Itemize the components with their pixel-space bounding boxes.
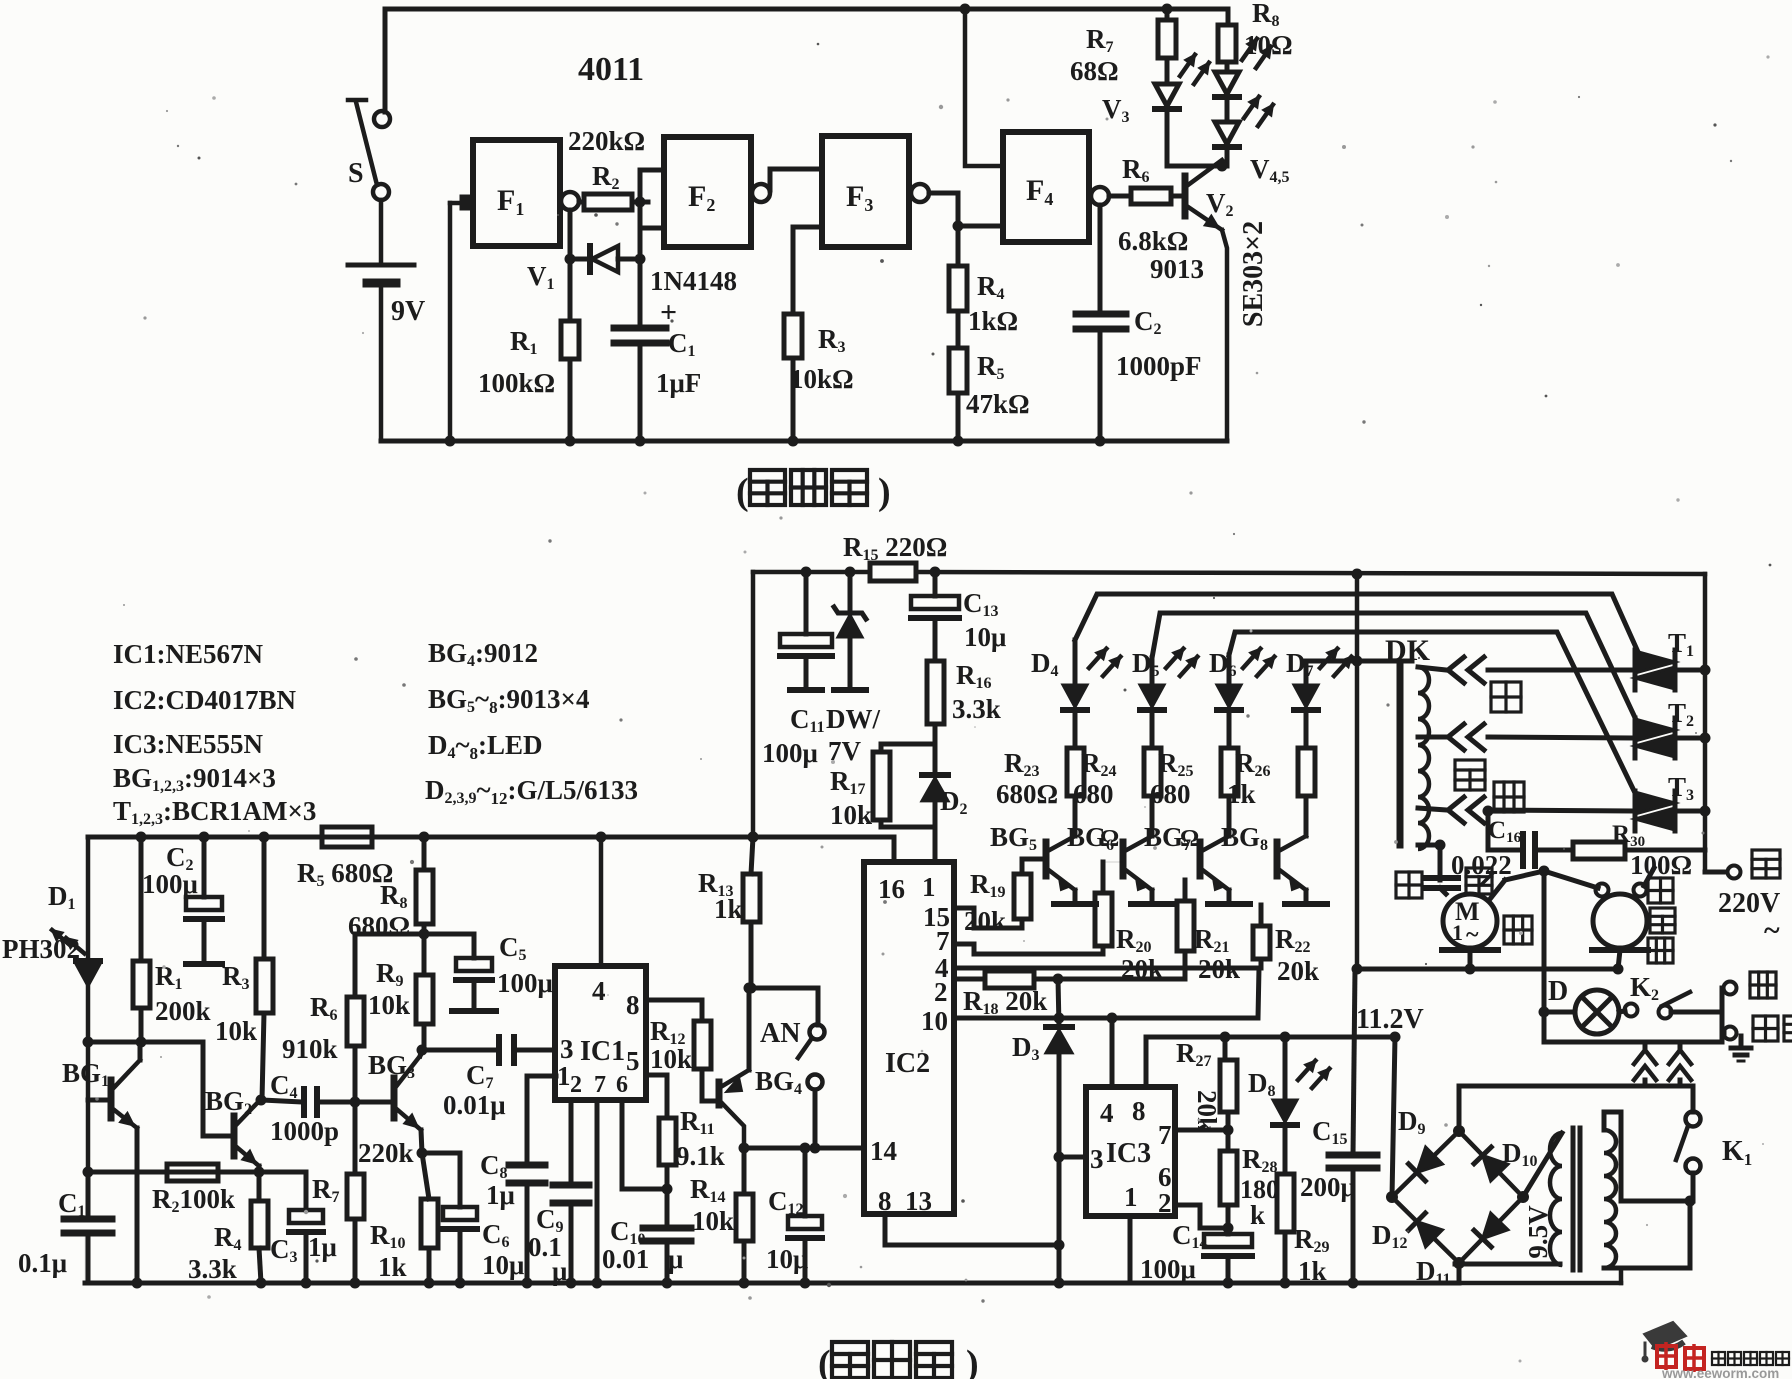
svg-text:BG5~8:9013×4: BG5~8:9013×4 xyxy=(428,684,589,717)
resistor R17 10k parallel xyxy=(881,742,935,747)
gate line L4 from D6 to T3 xyxy=(1229,632,1637,797)
resistor R19 20k xyxy=(1014,874,1031,919)
wire: lamp bottom wire xyxy=(1544,1040,1722,1045)
svg-text:100μ: 100μ xyxy=(762,738,818,768)
svg-text:2: 2 xyxy=(570,1072,582,1098)
wire: pin4 long line to R22 xyxy=(954,966,1259,971)
svg-text:13: 13 xyxy=(905,1186,932,1216)
svg-text:680Ω: 680Ω xyxy=(348,911,410,941)
watermark logo cap xyxy=(1644,1322,1686,1349)
DK transformer core bar xyxy=(1397,663,1404,845)
label weak xyxy=(1491,682,1521,712)
svg-text:1: 1 xyxy=(1452,920,1463,945)
transistor BG6 xyxy=(1120,842,1127,876)
wire: bridge top to connector wire xyxy=(1457,1086,1462,1131)
svg-text:IC3: IC3 xyxy=(1106,1138,1151,1169)
resistor R13 1k xyxy=(748,832,759,843)
svg-text:200μ: 200μ xyxy=(1300,1172,1356,1202)
gate F1 xyxy=(473,140,560,246)
svg-text:BG1,2,3:9014×3: BG1,2,3:9014×3 xyxy=(113,763,276,795)
svg-text:220k: 220k xyxy=(358,1138,414,1168)
svg-text:R15 220Ω: R15 220Ω xyxy=(843,532,947,564)
wire: motor/timer bottom wire xyxy=(1357,967,1618,972)
wire: supply rail y572 with R15 xyxy=(753,570,870,575)
svg-text:): ) xyxy=(878,471,891,513)
terminal blue 220V xyxy=(1705,870,1727,875)
thyristor T3 xyxy=(1633,791,1638,831)
wire: red node vertical xyxy=(1542,871,1547,1042)
wire: coil bottom to motor branch xyxy=(1418,843,1440,848)
svg-text:IC2: IC2 xyxy=(885,1048,930,1079)
svg-text:1kΩ: 1kΩ xyxy=(968,306,1018,336)
svg-text:1k: 1k xyxy=(1227,779,1256,809)
wire: right rail from supply to terminals xyxy=(1703,574,1708,872)
resistor R12 10k xyxy=(646,998,702,1003)
svg-text:R18 20k: R18 20k xyxy=(963,986,1047,1018)
resistor R27 20k xyxy=(1220,1032,1231,1043)
photodiode D1 PH302 xyxy=(86,837,91,961)
LED V3 xyxy=(1155,84,1179,106)
resistor R22 20k xyxy=(1253,926,1270,959)
svg-text:): ) xyxy=(966,1343,979,1379)
wire: IC1 pin1 to bottom rail xyxy=(527,1074,556,1079)
resistor R15 220 inline xyxy=(870,563,916,581)
svg-text:100μ: 100μ xyxy=(1140,1254,1196,1284)
capacitor C5 100u xyxy=(424,932,474,937)
wire: R2 to F2 input xyxy=(640,170,664,202)
wire: battery to bottom rail xyxy=(379,287,384,441)
svg-text:R2100k: R2100k xyxy=(152,1184,235,1216)
capacitor C16 0.022 xyxy=(1486,811,1491,850)
resistor R15b 9.1k xyxy=(646,1073,667,1078)
label black xyxy=(1504,916,1532,944)
svg-text:100μ: 100μ xyxy=(142,869,198,899)
wire: F3 lower input via R3 xyxy=(793,225,822,230)
node: F3 output bubble xyxy=(911,184,929,202)
capacitor C6 10u xyxy=(422,1151,460,1156)
wire: F3 out to F4 lower input xyxy=(929,193,1003,226)
svg-text:680: 680 xyxy=(1073,779,1114,809)
watermark site name characters xyxy=(1712,1352,1725,1365)
svg-text:Ω: Ω xyxy=(1100,826,1119,852)
resistor R24 xyxy=(1144,748,1161,796)
svg-text:100Ω: 100Ω xyxy=(1630,850,1692,880)
IC2 CD4017BN box xyxy=(864,862,954,1214)
svg-text:3.3k: 3.3k xyxy=(952,694,1001,724)
wire: IC1 pin4 to top rail xyxy=(596,832,607,843)
svg-text:+: + xyxy=(660,296,677,329)
svg-text:20k: 20k xyxy=(1198,954,1240,984)
svg-text:0.01μ: 0.01μ xyxy=(443,1090,506,1120)
svg-text:k: k xyxy=(1250,1200,1265,1230)
wire: LED branch bottom to collector node xyxy=(1165,120,1170,166)
wire: primary top loop xyxy=(1604,1112,1690,1201)
lamp D xyxy=(1539,1007,1550,1018)
svg-text:IC1: IC1 xyxy=(580,1036,625,1067)
resistor R2 100k inline xyxy=(167,1164,218,1181)
svg-text:(: ( xyxy=(736,471,749,513)
svg-text:DK: DK xyxy=(1385,634,1431,667)
chevron connector arrows xyxy=(1634,1050,1656,1064)
svg-text:10k: 10k xyxy=(830,800,872,830)
terminal yellow-green with ground xyxy=(1720,1012,1725,1042)
tap strong to T3 xyxy=(1418,808,1446,810)
svg-text:1μF: 1μF xyxy=(656,368,701,398)
battery 9V xyxy=(348,263,414,268)
svg-text:IC3:NE555N: IC3:NE555N xyxy=(113,729,264,759)
diode D3 xyxy=(1058,979,1059,1027)
svg-text:1000pF: 1000pF xyxy=(1116,351,1202,381)
transistor BG4 9012 pnp xyxy=(716,1082,723,1105)
node: F1 output bubble xyxy=(561,192,579,210)
resistor R26 xyxy=(1298,748,1315,796)
svg-text:5: 5 xyxy=(626,1046,640,1076)
LED V4 xyxy=(1215,72,1239,94)
LED D5 xyxy=(1140,685,1164,707)
capacitor C1 0.1u xyxy=(87,1172,89,1215)
svg-text:0.1μ: 0.1μ xyxy=(18,1248,67,1278)
svg-text:4011: 4011 xyxy=(578,51,644,88)
wire: R1 bottom node to BG2 base column xyxy=(88,1040,203,1045)
resistor R1 100k xyxy=(568,210,573,321)
wire: transmitter top rail xyxy=(385,7,1228,12)
svg-text:R5 680Ω: R5 680Ω xyxy=(297,858,393,890)
resistor R14 10k xyxy=(742,1148,747,1194)
DK coil xyxy=(1418,667,1429,849)
svg-text:μ: μ xyxy=(668,1244,683,1274)
wire: left battery branch down from top rail xyxy=(383,9,388,112)
wire: receiver bottom rail xyxy=(85,1281,1459,1286)
LED D6 xyxy=(1217,685,1241,707)
svg-text:10k: 10k xyxy=(368,990,410,1020)
tap arrows weak xyxy=(1448,657,1464,683)
svg-text:14: 14 xyxy=(870,1136,897,1166)
svg-text:10: 10 xyxy=(921,1006,948,1036)
wire: D3 to IC3 pin3 xyxy=(1059,1155,1086,1160)
wire: pin10 line xyxy=(954,1016,1256,1021)
motor M xyxy=(1443,894,1497,948)
resistor R3 10k xyxy=(259,832,270,843)
svg-text:47kΩ: 47kΩ xyxy=(966,389,1030,419)
timer circle xyxy=(1544,871,1598,888)
capacitor C2 100u xyxy=(199,832,210,843)
wire: IC3 pin1 to rail xyxy=(1128,1216,1133,1283)
svg-text:1k: 1k xyxy=(714,894,743,924)
resistor R9 10k xyxy=(422,934,427,975)
gate line L2 from D4 to T1 xyxy=(1075,594,1638,652)
wire: IC2 bottom pins to rail xyxy=(885,1214,1059,1245)
transistor BG5 xyxy=(1043,842,1050,876)
wire: IC3 pin2 jog xyxy=(1175,1205,1200,1228)
resistor R18 20k inline pin2 xyxy=(985,971,1034,988)
wire: 11.2V rail xyxy=(1146,1035,1395,1040)
svg-text:20k: 20k xyxy=(1192,1090,1222,1132)
IC3 NE555N box xyxy=(1086,1087,1175,1216)
label strong xyxy=(1494,782,1524,812)
resistor R28 180k xyxy=(1226,1130,1231,1151)
transistor BG1 xyxy=(108,1080,115,1118)
svg-text:10μ: 10μ xyxy=(766,1244,808,1274)
thyristor T2 xyxy=(1633,718,1638,758)
bridge rectifier D9-D12 xyxy=(1392,1131,1459,1197)
svg-text:10μ: 10μ xyxy=(482,1250,524,1280)
svg-text:1μ: 1μ xyxy=(486,1180,515,1210)
svg-text:10k: 10k xyxy=(692,1206,734,1236)
wire: bottom rail right portion xyxy=(1459,1281,1621,1286)
svg-text:1000p: 1000p xyxy=(270,1116,339,1146)
svg-text:10kΩ: 10kΩ xyxy=(790,364,854,394)
capacitor C14 100u xyxy=(1226,1228,1231,1234)
svg-text:3: 3 xyxy=(1090,1144,1104,1174)
wire: transformer secondary to bridge xyxy=(1523,1133,1562,1197)
wire: pin10 to IC3 pin4 xyxy=(1110,1018,1115,1087)
resistor R2 220k xyxy=(584,194,632,210)
resistor R21 20k xyxy=(1177,901,1194,951)
transistor BG8 xyxy=(1274,842,1281,876)
switch K1 xyxy=(1691,1086,1696,1112)
wire: node14 to IC2 xyxy=(744,1146,864,1151)
resistor R23 xyxy=(1067,748,1084,796)
svg-text:1: 1 xyxy=(922,872,936,902)
wire: pin6 to C10 node xyxy=(622,1100,667,1189)
wire: receiver top rail xyxy=(88,835,894,840)
LED D7 xyxy=(1294,685,1318,707)
wire: collector node to C7 xyxy=(422,1048,497,1053)
diode D10 xyxy=(1483,1155,1508,1181)
svg-text:910k: 910k xyxy=(282,1034,338,1064)
svg-text:10k: 10k xyxy=(650,1044,692,1074)
capacitor C12 10u xyxy=(803,1148,808,1216)
svg-text:3.3k: 3.3k xyxy=(188,1254,237,1284)
svg-text:IC1:NE567N: IC1:NE567N xyxy=(113,639,264,669)
svg-text:IC2:CD4017BN: IC2:CD4017BN xyxy=(113,685,297,715)
wire: rail corner into IC2 top xyxy=(892,837,897,862)
transistor BG7 xyxy=(1197,842,1204,876)
diode D11 xyxy=(1483,1213,1508,1239)
wire: transmitter bottom rail xyxy=(381,439,1227,444)
gate F2 xyxy=(664,137,751,247)
transformer primary xyxy=(1604,1130,1616,1268)
svg-text:~: ~ xyxy=(1466,922,1479,948)
svg-text:DW/: DW/ xyxy=(826,704,880,734)
capacitor C11 100u xyxy=(801,567,812,578)
resistor R8 10 ohm xyxy=(1226,9,1231,25)
wire: pin7 to R20 xyxy=(954,944,1103,954)
capacitor C13 10u xyxy=(930,567,941,578)
column C8 1u / pin1 xyxy=(525,1076,530,1165)
svg-text:1N4148: 1N4148 xyxy=(650,266,737,296)
svg-text:D4~8:LED: D4~8:LED xyxy=(428,730,543,763)
wire: feedback from top rail to F4 upper input xyxy=(960,4,971,15)
label red xyxy=(1466,868,1492,894)
svg-text:S: S xyxy=(348,158,364,189)
capacitor C4 1000p inline xyxy=(262,1100,302,1102)
svg-text:BG4:9012: BG4:9012 xyxy=(428,638,538,670)
node: F4 output bubble xyxy=(1091,187,1109,205)
wire: C1/R2 node line xyxy=(88,1170,259,1175)
resistor R29 1k xyxy=(1283,1125,1288,1174)
svg-text:20k: 20k xyxy=(964,906,1006,936)
svg-text:11.2V: 11.2V xyxy=(1356,1004,1424,1035)
capacitor C7 0.01u xyxy=(496,1037,502,1063)
capacitor C2 1000pF xyxy=(1098,205,1103,314)
watermark chongchong red characters xyxy=(1657,1346,1676,1367)
resistor R16 3.3k xyxy=(927,661,944,724)
wire: pin2 stub to R18 xyxy=(954,977,985,982)
wire: R6 top to R8/R9 node xyxy=(355,932,424,937)
diode D12 xyxy=(1417,1222,1443,1247)
svg-text:6: 6 xyxy=(616,1072,628,1098)
supply branch column x753 xyxy=(748,832,759,843)
svg-text:~: ~ xyxy=(1764,914,1780,947)
gate line L3 from D5 to T2 xyxy=(1152,613,1638,724)
label white xyxy=(1396,872,1422,898)
transistor V2 9013 xyxy=(1182,176,1189,216)
svg-text:7: 7 xyxy=(594,1072,606,1098)
svg-text:200k: 200k xyxy=(155,996,211,1026)
svg-text:1: 1 xyxy=(1124,1182,1138,1212)
resistor R10 1k xyxy=(422,1153,429,1199)
LED D4 xyxy=(1063,685,1087,707)
wire: supply column to DK and D7 xyxy=(1352,569,1363,580)
resistor R1 200k xyxy=(136,832,147,843)
wire: coil top tap to T1 xyxy=(1418,667,1446,670)
svg-text:AN: AN xyxy=(760,1018,800,1049)
node: F2 output bubble xyxy=(752,184,770,202)
resistor R3 10k xyxy=(784,314,802,358)
svg-text:1: 1 xyxy=(557,1061,571,1091)
svg-text:20k: 20k xyxy=(1277,956,1319,986)
capacitor C3 1u xyxy=(259,1170,306,1175)
wire: bridge DC- to 11.2V column xyxy=(1390,1032,1401,1043)
terminal red xyxy=(1720,988,1725,1012)
wire: switch to battery xyxy=(379,200,384,263)
wire: F2 out to F3 input xyxy=(770,169,822,190)
gate F4 xyxy=(1003,132,1089,242)
resistor R30 100 xyxy=(1573,842,1625,859)
transformer secondary 9.5V xyxy=(1550,1133,1562,1265)
svg-text:8: 8 xyxy=(626,990,640,1020)
label middle xyxy=(1455,760,1485,790)
svg-text:100μ: 100μ xyxy=(497,968,553,998)
switch AN xyxy=(751,988,818,1025)
svg-text:1μ: 1μ xyxy=(308,1232,337,1262)
gate F3 xyxy=(822,136,909,247)
switch S xyxy=(374,111,390,127)
svg-text:3: 3 xyxy=(560,1034,574,1064)
wire: F2 lower input stub xyxy=(640,226,664,231)
wire: V2 emitter down to bottom rail xyxy=(1222,230,1227,441)
svg-text:7: 7 xyxy=(1158,1120,1172,1150)
resistor R4 3.3k xyxy=(257,1172,262,1201)
svg-text:10k: 10k xyxy=(215,1016,257,1046)
diode D2 xyxy=(922,772,948,778)
wire: pin15 to R19 xyxy=(954,908,1022,928)
svg-text:68Ω: 68Ω xyxy=(1070,56,1119,86)
thyristor T1 xyxy=(1633,650,1638,690)
svg-text:220kΩ: 220kΩ xyxy=(568,126,645,156)
resistor R7 220k xyxy=(353,1102,358,1174)
transistor BG2 xyxy=(231,1116,238,1156)
diode D9 xyxy=(1417,1147,1443,1172)
motor bottom xyxy=(1442,947,1498,953)
svg-text:2: 2 xyxy=(1158,1188,1172,1218)
svg-text:SE303×2: SE303×2 xyxy=(1238,221,1269,327)
svg-text:10μ: 10μ xyxy=(964,622,1006,652)
svg-text:680: 680 xyxy=(1150,779,1191,809)
wire: F1 input branch xyxy=(448,203,453,441)
svg-text:9013: 9013 xyxy=(1150,254,1204,284)
transistor BG3 xyxy=(391,1078,398,1118)
svg-text:D: D xyxy=(1548,976,1568,1007)
tap middle to T2 xyxy=(1418,735,1446,740)
wire: BG6 base link xyxy=(1103,861,1123,863)
svg-text:2: 2 xyxy=(934,977,948,1007)
zener DW 7V xyxy=(845,567,856,578)
svg-text:www.eeworm.com: www.eeworm.com xyxy=(1661,1366,1779,1379)
svg-text:7: 7 xyxy=(936,926,950,956)
svg-text:4: 4 xyxy=(1100,1098,1114,1128)
resistor R4 1k xyxy=(956,226,961,266)
capacitor C1 1uF xyxy=(638,259,643,326)
capacitor C15 200u xyxy=(1353,969,1355,1155)
svg-text:Ω: Ω xyxy=(1180,826,1199,852)
svg-text:(: ( xyxy=(818,1343,831,1379)
svg-text:9.5V: 9.5V xyxy=(1523,1205,1553,1259)
LED V5 xyxy=(1215,122,1239,144)
svg-text:20k: 20k xyxy=(1121,954,1163,984)
svg-text:680Ω: 680Ω xyxy=(996,779,1058,809)
resistor R7 68 ohm xyxy=(1162,4,1173,15)
resistor R6 910k xyxy=(347,997,364,1046)
IC1 NE567N box xyxy=(555,966,646,1100)
svg-text:8: 8 xyxy=(1132,1096,1146,1126)
svg-text:9.1k: 9.1k xyxy=(676,1141,725,1171)
svg-text:16: 16 xyxy=(878,874,905,904)
svg-text:PH302: PH302 xyxy=(2,934,80,964)
svg-text:4: 4 xyxy=(592,976,606,1006)
wire: D7 top xyxy=(1304,661,1309,685)
svg-text:9V: 9V xyxy=(391,296,425,327)
motor phase capacitor xyxy=(1439,880,1441,884)
resistor R5 47k xyxy=(949,348,967,393)
svg-text:0.01: 0.01 xyxy=(602,1244,649,1274)
resistor R8 680 xyxy=(419,832,430,843)
resistor R6 6.8k xyxy=(1109,194,1131,199)
capacitor C10 0.01u xyxy=(665,1189,670,1228)
diode V1 1N4148 xyxy=(570,257,588,262)
resistor R25 xyxy=(1221,748,1238,796)
transformer core xyxy=(1571,1128,1576,1270)
switch K2 xyxy=(1619,1011,1625,1012)
wire: pin7 to bottom rail xyxy=(595,1100,600,1283)
svg-text:6.8kΩ: 6.8kΩ xyxy=(1118,226,1188,256)
label timer dingshiqi vertical xyxy=(1648,878,1673,903)
LED D8 xyxy=(1280,1032,1291,1043)
resistor R20 20k xyxy=(1095,893,1112,946)
wire: node down to diode/C1 column xyxy=(638,202,643,259)
wire: bridge bottom to rail xyxy=(1457,1263,1462,1283)
column C9 0.1u / pin2 xyxy=(569,1100,574,1185)
resistor R5 680 inline xyxy=(322,827,372,847)
svg-text:1k: 1k xyxy=(378,1252,407,1282)
svg-text:100kΩ: 100kΩ xyxy=(478,368,555,398)
wire: primary bottom loop xyxy=(1604,1201,1690,1268)
